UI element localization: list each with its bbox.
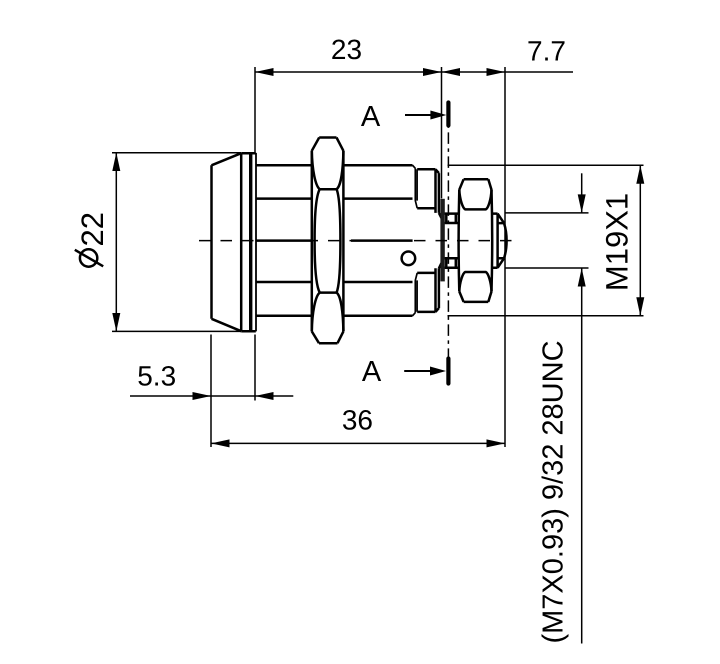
tab bottom (445, 258, 460, 267)
dim line 5.3 (130, 395, 293, 397)
stud with dome end (492, 214, 507, 268)
arrow 23 left (255, 68, 274, 76)
washer plate (440, 199, 444, 282)
cam hole circle (402, 251, 416, 265)
extension line right 36 (504, 67, 506, 447)
label 5.3 (137, 361, 176, 392)
label A bottom (362, 356, 382, 388)
dim line dia22 (115, 153, 117, 332)
label 7.7 (527, 36, 566, 67)
label 36 (342, 405, 373, 436)
dim line 23 and 7.7 (255, 71, 573, 73)
hex nut 1 top chamfer arcs (312, 151, 344, 189)
label dia22 (75, 212, 110, 267)
hex nut 2 facet boundaries (459, 190, 491, 292)
arrow M19 top (636, 165, 644, 184)
flange rim band (241, 153, 256, 332)
dim line M7 bottom (581, 268, 583, 644)
arrow 36 left (211, 439, 230, 447)
hex nut 1 middle facet edges (315, 189, 341, 292)
svg-text:5.3: 5.3 (137, 361, 176, 392)
centerline (199, 240, 520, 242)
svg-text:7.7: 7.7 (527, 36, 566, 67)
hex nut 1 silhouette (312, 138, 344, 344)
core bottom line (256, 281, 412, 284)
svg-text:(M7X0.93) 9/32 28UNC: (M7X0.93) 9/32 28UNC (538, 340, 570, 643)
barrel bottom edge (256, 315, 412, 318)
section line A-A dashdot (447, 108, 449, 385)
arrow dia22 down (112, 313, 120, 332)
extension line dia22 bottom (112, 330, 241, 332)
arrowheads (112, 68, 644, 447)
svg-text:23: 23 (331, 34, 362, 65)
thin lines: centerline, dims, extension lines (112, 67, 644, 644)
svg-text:22: 22 (75, 212, 110, 246)
section cutting plane marks (404, 103, 448, 384)
arrow 7.7 right (487, 68, 506, 76)
slot center solid edge (256, 239, 412, 242)
threaded stub top (417, 169, 441, 218)
barrel top edge (256, 164, 412, 167)
arrow M19 bottom (636, 297, 644, 316)
svg-text:A: A (362, 356, 382, 388)
section tick top (446, 103, 450, 126)
arrow 23 right (423, 68, 442, 76)
extension line 5.3 right (254, 335, 256, 401)
arrow M7 bottom (up) (578, 268, 586, 287)
extension line 36 left (210, 335, 212, 448)
threaded stub bottom (417, 263, 441, 312)
hex nut 1 bottom chamfer arcs (312, 293, 344, 332)
barrel end chamfer top (413, 165, 418, 208)
arrow 5.3 right outside (255, 392, 274, 400)
label A top (361, 101, 381, 133)
core top line (256, 197, 412, 200)
extension line M7 bottom (505, 267, 589, 269)
svg-text:M19X1: M19X1 (600, 193, 635, 291)
arrow 5.3 left outside (193, 392, 212, 400)
extension line left of 23 (254, 67, 256, 152)
tab top (445, 214, 460, 223)
arrow 36 right (487, 439, 506, 447)
arrow M7 top (down) (578, 194, 586, 213)
arrow dia22 up (112, 153, 120, 172)
extension line M19 top (448, 164, 644, 166)
flange head cone (212, 153, 242, 331)
arrow 7.7 left (442, 68, 461, 76)
svg-text:36: 36 (342, 405, 373, 436)
dim line M7 top (581, 173, 583, 213)
barrel end chamfer bottom (413, 273, 418, 316)
label M7 thread (538, 340, 570, 643)
hex nut 2 silhouette (459, 179, 493, 302)
label M19X1 (600, 193, 635, 291)
label 23 (331, 34, 362, 65)
extension line M7 top (505, 212, 589, 214)
dim line M19X1 (639, 165, 641, 316)
svg-text:A: A (361, 101, 381, 133)
section arrow top (405, 111, 446, 120)
extension line M19 bottom (448, 315, 644, 317)
section arrow bottom (404, 367, 446, 376)
section tick bottom (446, 359, 450, 384)
dim line 36 (211, 442, 505, 444)
extension line washer face (441, 67, 443, 198)
extension line dia22 top (112, 152, 241, 154)
